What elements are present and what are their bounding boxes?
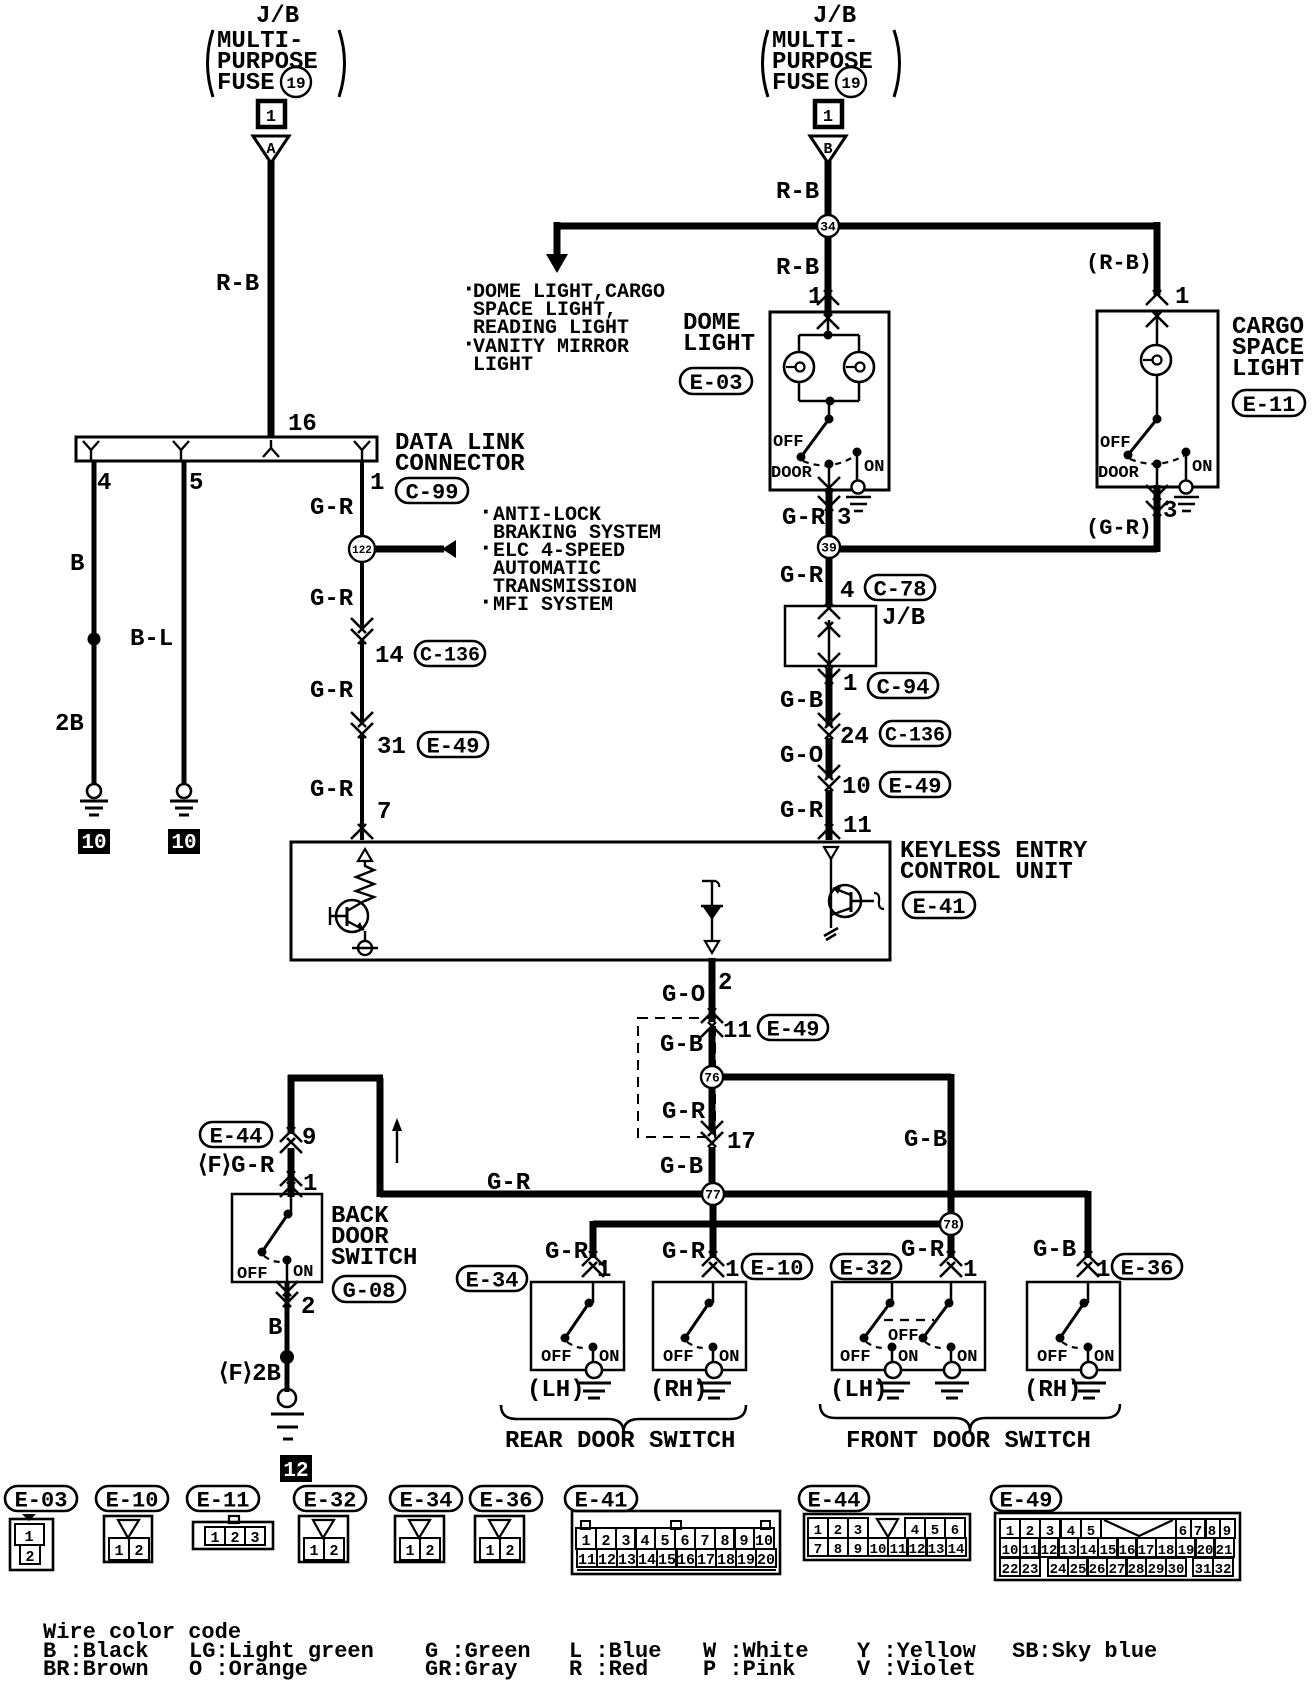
connector capsule E-03 bottom [5,1486,77,1511]
front RH E-36 dashed arc [1062,1342,1082,1348]
svg-text:22: 22 [1002,1562,1019,1578]
door switch box front RH E-36 [1027,1282,1120,1370]
svg-text:26: 26 [1089,1562,1106,1578]
data link connector C-99 bar [76,437,377,461]
svg-text:1: 1 [114,1543,123,1560]
ground symbol back door [271,1389,304,1439]
svg-text:(G-R): (G-R) [1086,516,1152,541]
svg-text:O :Orange: O :Orange [189,1657,308,1682]
connector drawing E-44 [804,1514,970,1560]
note list anti-lock braking system elc 4-speed automatic transmission mfi system [478,497,661,617]
svg-text:G-R: G-R [780,798,824,825]
svg-text:OFF: OFF [1037,1348,1068,1367]
svg-text:G-R: G-R [310,586,354,613]
svg-text:J/B: J/B [256,3,299,30]
svg-text:B: B [823,141,832,158]
svg-text:10: 10 [755,1533,773,1550]
connector capsule E-10 bottom [96,1486,168,1511]
rear LH E-34 switch arm [561,1303,590,1343]
svg-text:E-49: E-49 [427,734,480,759]
svg-text:7: 7 [814,1542,822,1558]
ground tag 10 second [168,829,200,855]
svg-text:·: · [478,587,494,617]
wire 78 down to front LH switch [948,1235,955,1258]
connector capsule E-41 bottom [565,1486,637,1511]
connector capsule E-10 at switch [742,1254,812,1279]
svg-text:E-36: E-36 [1121,1256,1174,1281]
connector capsule E-11 at cargo light [1233,390,1305,416]
svg-text:G-R: G-R [782,505,826,532]
junction block label J/B (MULTI-PURPOSE FUSE 19) right [763,3,900,97]
svg-text:6: 6 [680,1533,689,1550]
rear RH E-10 ground symbol [706,1362,722,1378]
wire B-L from DLC pin 5 to ground 10 [182,461,187,784]
svg-text:9: 9 [854,1542,862,1558]
dome node dot bottom of loop [826,397,835,406]
connector capsule C-136 right [880,721,950,746]
resistor R in keyless unit [356,861,374,901]
svg-text:8: 8 [720,1533,729,1550]
E-32 right pivot dot [945,1299,954,1308]
svg-text:(RH): (RH) [650,1377,708,1404]
svg-text:7: 7 [700,1533,709,1550]
svg-text:ON: ON [864,458,884,477]
brace rear door switch [501,1405,746,1432]
cargo output wire pin 3 to bus [829,464,1157,552]
dome switch dashed arc [803,456,855,465]
svg-text:2: 2 [718,970,732,997]
svg-text:12: 12 [1041,1543,1058,1559]
svg-text:19: 19 [737,1552,755,1569]
svg-text:E-44: E-44 [210,1124,263,1149]
main feed bus from junction 34 left arrow and right to cargo light [546,222,1157,295]
svg-text:C-136: C-136 [885,725,945,748]
svg-text:DOOR: DOOR [771,464,813,483]
triangle connector B [810,136,846,163]
brace front door switch [820,1404,1120,1431]
connector mark rear RH pin 1 [702,1251,717,1266]
connector mark keyless pin 7 [351,824,366,839]
svg-text:1: 1 [1175,284,1189,311]
svg-text:12: 12 [909,1542,926,1558]
svg-text:1: 1 [843,671,857,698]
keyless Q2 ground hatch [824,928,838,940]
svg-text:LIGHT: LIGHT [1232,356,1304,383]
front RH E-36 ON wire to ground [1087,1347,1090,1370]
svg-text:E-10: E-10 [751,1256,804,1281]
back door switch box G-08 [232,1194,322,1282]
svg-text:E-11: E-11 [1243,393,1296,418]
svg-text:CONTROL UNIT: CONTROL UNIT [900,859,1073,886]
door switch box rear RH E-10 [653,1282,746,1370]
svg-text:J/B: J/B [882,605,925,632]
svg-text:FUSE: FUSE [772,70,830,97]
svg-text:2: 2 [834,1523,842,1539]
connector mark 11 E-49 out [701,1008,723,1037]
E-32 internal wire left [891,1282,894,1303]
svg-text:(RH): (RH) [1024,1377,1082,1404]
svg-text:31: 31 [1195,1562,1212,1578]
keyless entry control unit box E-41 [291,842,890,960]
svg-text:20: 20 [757,1552,775,1569]
svg-text:1: 1 [963,1257,977,1284]
svg-text:1: 1 [210,1530,219,1547]
back door switch internal wire [290,1194,293,1214]
rear LH E-34 ON dot [589,1343,598,1352]
svg-text:5: 5 [660,1533,669,1550]
cargo switch pivot dot [1153,415,1162,424]
ground symbol B-L [177,784,191,798]
svg-text:15: 15 [658,1552,676,1569]
svg-text:B: B [268,1315,282,1342]
wire G-R E-49 to keyless pin 7 [360,734,364,840]
junction dot back door ground wire [280,1350,294,1364]
wire G-R 122 to connector C-136 [360,562,364,628]
dome DOOR contact dot [825,460,834,469]
connector capsule E-44 bottom [799,1486,869,1511]
rear RH E-10 switch arm [681,1303,710,1343]
svg-text:11: 11 [1022,1543,1039,1559]
wire through J/B box [828,620,831,668]
wire G-R 76 down to 17 [709,1085,716,1131]
svg-text:R-B: R-B [776,179,819,206]
svg-text:R-B: R-B [776,255,819,282]
svg-text:16: 16 [677,1552,695,1569]
svg-text:·: · [478,533,494,563]
svg-text:OFF: OFF [888,1327,919,1346]
svg-text:29: 29 [1148,1562,1165,1578]
front RH E-36 switch arm [1056,1303,1085,1343]
svg-text:4: 4 [840,578,854,605]
connector capsule C-99 [396,478,468,503]
svg-text:6: 6 [951,1523,959,1539]
svg-text:OFF: OFF [1100,434,1131,453]
rear RH E-10 ON dot [709,1343,718,1352]
wire R-B 34 down to dome light [825,237,832,316]
dome ON contact dot [853,448,862,457]
svg-text:C-78: C-78 [874,577,927,602]
svg-text:G-B: G-B [660,1154,703,1181]
svg-text:18: 18 [717,1552,735,1569]
connector drawing E-11 [193,1516,273,1549]
svg-text:OFF: OFF [663,1348,694,1367]
inline connector marks 14 C-136 [351,618,366,633]
svg-text:E-10: E-10 [106,1488,159,1513]
dashed option box [638,1018,715,1137]
svg-text:G-R: G-R [310,678,354,705]
svg-text:E-34: E-34 [466,1268,519,1293]
front RH E-36 internal wire [1087,1282,1090,1303]
svg-text:FRONT DOOR SWITCH: FRONT DOOR SWITCH [846,1428,1091,1455]
wire 77 down to rear RH switch [710,1205,717,1258]
svg-text:OFF: OFF [773,433,804,452]
svg-text:3: 3 [1163,498,1177,525]
svg-text:E-49: E-49 [1000,1488,1053,1513]
wire stub to other systems with arrowhead [375,540,456,558]
svg-text:E-41: E-41 [913,895,966,920]
svg-text:20: 20 [1197,1543,1214,1559]
connector mark back door pin 1 [280,1171,295,1186]
svg-text:14: 14 [948,1542,965,1558]
rear LH E-34 ON wire to ground [592,1347,595,1370]
transistor Q2 in keyless unit [829,859,884,928]
svg-text:8: 8 [834,1542,842,1558]
svg-text:39: 39 [821,541,837,556]
svg-text:32: 32 [1215,1562,1232,1578]
svg-text:3: 3 [854,1523,862,1539]
svg-text:G-R: G-R [780,563,824,590]
connector mark cargo pin 1 [1146,290,1168,327]
svg-text:G-B: G-B [660,1032,703,1059]
svg-text:11: 11 [843,813,872,840]
svg-text:G-R: G-R [662,1239,706,1266]
cargo ON wire to ground [1185,452,1188,481]
connector mark cargo pin 3 [1146,485,1168,516]
cargo ON contact dot [1182,448,1191,457]
svg-text:34: 34 [820,220,836,235]
svg-text:19: 19 [286,75,305,93]
wire G-R junction 78 branch to rear LH switch [593,1221,951,1258]
svg-text:11: 11 [723,1018,752,1045]
svg-text:12: 12 [283,1460,308,1483]
wire B back door switch pin 2 down [286,1260,289,1392]
svg-text:C-136: C-136 [420,645,480,668]
dome ground symbol [846,481,871,512]
dome wire loop to switch pivot [828,401,831,419]
wire G-O to E-49 [826,738,833,778]
svg-text:GR:Gray: GR:Gray [425,1657,517,1682]
connector capsule E-49 output [758,1015,828,1040]
svg-text:E-11: E-11 [197,1488,250,1513]
svg-text:⟨F⟩G-R: ⟨F⟩G-R [198,1153,275,1180]
inline connector marks 10 E-49 [818,765,833,780]
ground symbol left B [87,784,101,798]
svg-text:1: 1 [485,1543,494,1560]
svg-text:4: 4 [97,470,111,497]
svg-text:1: 1 [823,108,833,127]
svg-text:E-49: E-49 [889,774,942,799]
connector drawing E-03 [10,1514,53,1570]
wire G-O keyless pin 2 down [709,958,716,1022]
E-32 left pivot dot [886,1299,895,1308]
fuse terminal box 1 right [815,101,842,127]
svg-text:DOOR: DOOR [1098,464,1140,483]
connector marks C-78 [818,604,840,637]
connector capsule C-136 left [415,641,485,666]
svg-text:14: 14 [375,643,404,670]
wire B from DLC pin 4 to ground 10 [92,461,97,784]
wire to back door switch pin 1 [288,1148,295,1197]
svg-text:G-R: G-R [545,1239,589,1266]
connector mark dome pin 1 [817,290,839,329]
fuse terminal box 1 left [258,101,285,127]
junction circle 76 [701,1066,723,1088]
svg-text:R :Red: R :Red [569,1657,648,1682]
svg-text:ON: ON [719,1348,739,1367]
connector mark J/B bottom [818,653,840,684]
connector drawing E-10 [104,1516,152,1562]
transistor Q1 in keyless unit [330,900,368,932]
svg-text:OFF: OFF [541,1348,572,1367]
front RH E-36 pivot dot [1080,1299,1089,1308]
connector capsule E-49 bottom [991,1486,1061,1511]
connector capsule E-49 left [418,732,488,757]
svg-text:E-44: E-44 [808,1488,861,1513]
svg-text:1: 1 [808,284,822,311]
svg-text:1: 1 [370,470,384,497]
svg-text:C-94: C-94 [877,675,930,700]
back door switch pivot dot [284,1210,293,1219]
svg-text:1: 1 [725,1257,739,1284]
svg-text:1: 1 [266,108,276,127]
cargo internal wire [1156,311,1159,345]
svg-text:E-41: E-41 [575,1488,628,1513]
svg-text:15: 15 [1100,1543,1117,1559]
svg-text:2: 2 [25,1549,34,1566]
dome light box E-03 [770,312,889,490]
svg-text:SB:Sky blue: SB:Sky blue [1012,1639,1157,1664]
label KEYLESS ENTRY CONTROL UNIT [900,838,1088,886]
svg-text:ON: ON [1192,458,1212,477]
svg-text:24: 24 [1050,1562,1067,1578]
svg-text:ON: ON [293,1263,313,1282]
E-32 right ground symbol [944,1362,960,1378]
svg-text:28: 28 [1128,1562,1145,1578]
svg-text:78: 78 [943,1218,959,1233]
svg-text:OFF: OFF [840,1348,871,1367]
connector capsule C-78 [865,575,935,600]
svg-text:ON: ON [1094,1348,1114,1367]
cargo switch arm to OFF [1124,419,1158,460]
connector drawing E-32 [299,1516,348,1562]
svg-text:G-R: G-R [310,777,354,804]
ground tag 10 left [78,829,110,855]
svg-text:2: 2 [425,1543,434,1560]
rear LH E-34 internal wire [592,1282,595,1303]
svg-text:ON: ON [957,1348,977,1367]
wire G-R to keyless pin 11 [826,790,833,840]
svg-text:11: 11 [890,1542,907,1558]
svg-text:10: 10 [1002,1543,1019,1559]
dome ON wire to ground [856,452,859,481]
svg-text:3: 3 [621,1533,630,1550]
connector capsule E-32 at switch [831,1254,901,1279]
svg-text:G-O: G-O [780,743,823,770]
svg-text:G-R: G-R [487,1170,531,1197]
connector mark rear LH pin 1 [582,1251,597,1266]
svg-text:G-R: G-R [901,1237,945,1264]
svg-text:13: 13 [618,1552,636,1569]
svg-text:LIGHT: LIGHT [683,331,755,358]
rear RH E-10 dashed arc [687,1342,707,1348]
label CARGO SPACE LIGHT [1232,314,1304,383]
svg-text:⟨F⟩2B: ⟨F⟩2B [219,1361,281,1388]
svg-text:E-36: E-36 [480,1488,533,1513]
svg-text:OFF: OFF [237,1265,268,1284]
keyless Q1 emitter case ground [352,931,378,955]
svg-text:E-49: E-49 [767,1017,820,1042]
svg-text:SWITCH: SWITCH [331,1245,417,1272]
door switch box rear LH E-34 [531,1282,624,1370]
svg-text:27: 27 [1109,1562,1126,1578]
direction arrow up [392,1118,402,1163]
dome output wire pin 3 [828,464,831,545]
wire from 76 right to front switches [712,1074,951,1224]
svg-text:11: 11 [578,1552,596,1569]
svg-text:4: 4 [640,1533,649,1550]
svg-text:J/B: J/B [813,3,856,30]
connector mark front RH pin 1 [1077,1251,1092,1266]
connector mark back door pin 2 [276,1281,291,1296]
svg-text:G-B: G-B [904,1127,947,1154]
wire G-B to junction 77 [709,1147,716,1194]
ground tag 12 [280,1455,312,1483]
svg-text:21: 21 [1216,1543,1233,1559]
svg-text:10: 10 [842,774,871,801]
junction circle 77 [702,1183,724,1205]
dome light internal wire from pin 1 [827,312,830,335]
DLC pin fork 1 [354,441,370,461]
cargo wire bulb to pivot [1156,375,1159,419]
svg-text:19: 19 [841,75,860,93]
connector capsule C-94 [868,673,938,698]
E-32 right ground wire [950,1347,953,1370]
E-32 internal wire right [950,1282,953,1303]
connector mark keyless pin 11 [818,824,833,839]
connector capsule E-36 at switch [1112,1254,1182,1279]
connector drawing E-49 [995,1513,1240,1580]
junction block label J/B (MULTI-PURPOSE FUSE 19) left [208,3,345,97]
wire G-B to junction 76 [709,1028,716,1077]
connector capsule E-41 at unit [903,892,975,918]
connector capsule E-34 bottom [390,1486,462,1511]
E-32 dashed link [884,1320,945,1348]
connector capsule E-36 bottom [470,1486,542,1511]
dome bulb right [844,352,874,382]
svg-text:1: 1 [405,1543,414,1560]
svg-text:2B: 2B [55,711,84,738]
svg-text:CONNECTOR: CONNECTOR [395,451,525,478]
connector capsule E-32 bottom [294,1486,366,1511]
connector mark front LH pin 1 [940,1251,955,1266]
svg-text:2: 2 [329,1543,338,1560]
svg-text:LIGHT: LIGHT [473,354,533,377]
cargo ground symbol [1174,481,1199,512]
svg-text:14: 14 [1080,1543,1097,1559]
junction circle 34 [817,215,839,237]
junction circle 39 [818,536,840,558]
E-32 left ground symbol [885,1362,901,1378]
svg-text:30: 30 [1168,1562,1185,1578]
E-32 right switch arm [919,1303,950,1343]
E-32 left ON dot [888,1343,897,1352]
svg-text:R-B: R-B [216,271,259,298]
svg-text:REAR DOOR SWITCH: REAR DOOR SWITCH [505,1428,735,1455]
cargo space light box E-11 [1097,311,1218,487]
dome switch pivot dot [825,415,834,424]
svg-text:2: 2 [601,1533,610,1550]
rear RH E-10 pivot dot [705,1299,714,1308]
diode D1 in keyless unit [701,881,723,941]
svg-text:E-32: E-32 [840,1256,893,1281]
svg-text:7: 7 [377,799,391,826]
connector mark 9 E-44 [280,1127,295,1142]
svg-text:9: 9 [302,1125,316,1152]
dome bulb left [784,352,814,382]
junction block J/B box [785,606,876,666]
svg-text:P :Pink: P :Pink [703,1657,795,1682]
svg-text:ON: ON [898,1348,918,1367]
